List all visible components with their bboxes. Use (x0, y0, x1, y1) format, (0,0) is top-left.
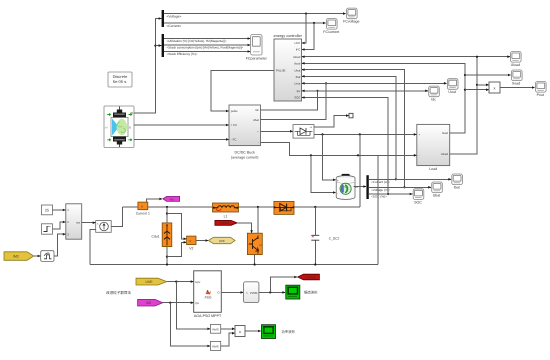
wire: buck + to diode subsystem (261, 130, 293, 132)
scope SOC (413, 189, 424, 200)
svg-text:-: - (258, 141, 259, 145)
wire: battery Voltage signal to Ubat scope (369, 186, 431, 188)
svg-text:Current 1: Current 1 (136, 211, 150, 215)
svg-text:Uload: Uload (293, 55, 301, 59)
svg-text:改进粒子群算法: 改进粒子群算法 (106, 290, 132, 295)
svg-text:5e-05 s.: 5e-05 s. (113, 79, 127, 84)
wire: Ipv line to scope Idc (302, 90, 428, 92)
svg-text:m: m (131, 111, 134, 115)
svg-text:H: H (106, 126, 108, 129)
wire: UFC input from FCvoltage line (305, 13, 307, 15)
wire: IGBT emitter to bottom bus (254, 255, 256, 265)
bus selector 2 (stack parameters) (162, 34, 164, 57)
svg-text:FCvoltage: FCvoltage (343, 20, 359, 24)
inductor L1 (213, 203, 239, 218)
main boost bus wire (122, 206, 359, 208)
svg-text:>: > (246, 291, 248, 295)
bottom return bus wire (90, 264, 378, 266)
from tag UVE (to MPPT) (136, 278, 167, 285)
svg-text:V2: V2 (189, 247, 193, 251)
svg-text:Uload: Uload (511, 63, 520, 67)
svg-text:<SOC (%)>: <SOC (%)> (371, 195, 387, 199)
svg-text:Idc: Idc (255, 108, 259, 112)
wire: Uout line to scope Uout (302, 82, 447, 84)
current measurement block Current 1 (136, 202, 150, 215)
svg-text:x: x (239, 329, 241, 334)
wire: IVE to PSO Ipv (163, 302, 194, 304)
svg-text:UFC: UFC (295, 41, 301, 45)
wire: constant to PV subsystem in1 (53, 209, 66, 211)
bus selector 1 (Voltage / Current) (162, 10, 164, 27)
wire: UVE to PSO Upv (167, 281, 194, 283)
svg-text:x: x (494, 85, 496, 90)
wire: PWM output to scope (259, 291, 285, 293)
svg-text:Load: Load (429, 167, 437, 171)
scope FCparameter (246, 35, 268, 61)
junction: C_DC2 tap on main bus (314, 206, 316, 208)
wire: PULSE output to buck pulse input (211, 70, 274, 111)
svg-text:Iload: Iload (294, 61, 301, 65)
junction: V2 - tap (166, 256, 168, 258)
AGA-PSO MPPT block (194, 271, 222, 318)
svg-text:Ubat: Ubat (294, 69, 300, 73)
wire: V2 + input (167, 214, 186, 239)
wire: Voltage signal to FCvoltage (164, 13, 346, 15)
svg-text:<Stack Efficiency (%)>: <Stack Efficiency (%)> (167, 52, 198, 56)
wire: product to Pout scope (500, 87, 535, 89)
wire: bottom bus riser to DC bus- (377, 155, 379, 264)
wire: current source output up to main bus (111, 207, 122, 227)
RMS block 2 (210, 341, 220, 350)
svg-text:Ipv: Ipv (195, 301, 199, 305)
svg-text:RMS: RMS (212, 345, 218, 349)
wire: Iload branch to product (464, 89, 466, 91)
scope Pout (536, 82, 547, 93)
diode D1 on main bus (274, 201, 295, 214)
svg-text:FCparameter: FCparameter (246, 57, 268, 61)
capacitor C_DC2 (311, 207, 339, 265)
svg-text:PWM2: PWM2 (220, 221, 229, 225)
wire: repeating block to PV subsystem in3 (54, 234, 65, 256)
wire: UVE branch down to RMS (176, 282, 210, 329)
svg-text:Ipv: Ipv (297, 89, 301, 93)
wire: IVE branch down to RMS1 (170, 303, 210, 346)
svg-text:<Stack consumption (lpm) [Air(: <Stack consumption (lpm) [Air(Yellow), F… (167, 46, 244, 50)
wire: V2 - input (167, 242, 186, 256)
svg-text:(average current): (average current) (231, 156, 259, 160)
wire: Stack consumption signal (164, 44, 250, 46)
svg-text:Iload: Iload (442, 131, 449, 135)
svg-text:Upv: Upv (195, 280, 201, 284)
svg-text:Uout: Uout (448, 90, 456, 94)
product block (PV power) (235, 326, 245, 337)
svg-text:O: O (129, 126, 131, 129)
wire: step to PV subsystem in2 (53, 222, 66, 229)
wire: Ibat line controller to riser (302, 76, 396, 179)
wire: fuel cell - to buck (134, 138, 229, 140)
repeating sequence block (41, 251, 54, 262)
junction: battery + drop (321, 133, 323, 135)
svg-text:- FC: - FC (231, 138, 237, 142)
scope Ibat (452, 174, 463, 185)
svg-text:<Voltage>: <Voltage> (167, 15, 182, 19)
PWM generator block (244, 282, 259, 303)
wire: from tag to repeating block (34, 255, 41, 257)
terminator block (349, 113, 353, 117)
wire: current source negative down to bottom bus (90, 229, 96, 264)
junction: Cdu1 tap on main bus (166, 206, 168, 208)
wire: RMS1 to product (221, 328, 235, 330)
wire: Iload branch to scope (464, 74, 466, 76)
svg-text:Iload: Iload (512, 82, 520, 86)
junction: battery - drop (310, 154, 312, 156)
wire: product to green display (245, 330, 261, 332)
IGBT Q1 (247, 233, 262, 254)
wire: IGBT collector to main bus (257, 206, 259, 208)
goto tag IVE (PV current) (163, 196, 180, 201)
wire: Uload branch to product (476, 84, 478, 86)
bus selector 3 (battery measurements) (366, 175, 368, 199)
svg-text:25: 25 (45, 209, 49, 213)
svg-text:<Current>: <Current> (167, 24, 182, 28)
svg-text:Uload: Uload (441, 152, 449, 156)
svg-text:IVE: IVE (170, 197, 175, 201)
svg-text:AGA-PSO MPPT: AGA-PSO MPPT (194, 314, 222, 318)
svg-text:+ FC: + FC (231, 123, 237, 127)
svg-text:<Voltage (V)>: <Voltage (V)> (371, 188, 390, 192)
svg-text:Ibat: Ibat (296, 75, 301, 79)
RMS block 1 (210, 325, 220, 334)
wire: Current signal to FCcurrent (164, 22, 326, 24)
wire: SOC line controller to riser (302, 98, 388, 195)
DC/DC Buck block U_buck (229, 105, 261, 160)
wire: V2 output to goto UVE (196, 240, 208, 242)
goto tag PWM2 (298, 274, 320, 280)
svg-text:-: - (419, 154, 420, 158)
svg-text:PSO: PSO (205, 296, 212, 300)
svg-text:V: V (189, 239, 191, 243)
wire: Uload riser from load (450, 57, 477, 154)
scope Ubat (432, 182, 443, 193)
energy controller block (274, 34, 303, 101)
junction: bottom bus riser on DC bus- (357, 154, 359, 156)
battery block (336, 174, 358, 199)
green scope (PV power waveform) (262, 325, 276, 339)
wire: battery + drop (323, 134, 336, 179)
svg-text:功率波形: 功率波形 (281, 330, 295, 334)
wire: fuel cell + to buck (134, 124, 229, 126)
wire: Stack efficiency signal (164, 51, 250, 53)
wire: PSO output to PWM generator (221, 291, 243, 293)
wire: boost output riser (359, 134, 361, 207)
wire: DC bus- from buck - to Load - (261, 142, 417, 155)
wire: battery m to bus selector (354, 186, 367, 188)
wire: buck Idc output up to Ipv line (261, 91, 318, 110)
from tag IM2 (irradiance) (4, 252, 34, 260)
wire: PWM branch to goto PWM2 (270, 277, 297, 292)
fuel cell stack block (104, 106, 134, 148)
svg-text:Ubat: Ubat (433, 194, 441, 198)
svg-text:+: + (337, 178, 339, 182)
goto tag UVE (PV voltage) (209, 237, 236, 243)
svg-text:Pout: Pout (537, 93, 544, 97)
svg-text:SOC: SOC (414, 200, 422, 204)
green scope (PWM waveform) (286, 285, 300, 299)
diode subsystem after buck (293, 125, 314, 139)
Load block (417, 124, 450, 171)
wire: Current 1 m output to goto IVE (147, 199, 163, 202)
svg-text:+: + (419, 133, 421, 137)
svg-text:IFC: IFC (296, 48, 301, 52)
svg-text:<Current (A)>: <Current (A)> (371, 180, 390, 184)
svg-text:IVE: IVE (146, 301, 152, 305)
wire: fuel cell m output up to bus selectors (134, 19, 161, 114)
wire: PWM2 from tag to IGBT gate (237, 223, 252, 233)
svg-text:SOC: SOC (294, 96, 300, 100)
svg-text:Ibat: Ibat (454, 186, 460, 190)
constant block 25 (42, 205, 53, 215)
product block (Pout multiply) (489, 82, 500, 93)
wire: battery Current signal to Ibat scope (369, 178, 451, 180)
wire: Iload line from load to controller and scope (302, 63, 465, 133)
scope FCcurrent (327, 19, 338, 30)
svg-text:Ipv: Ipv (76, 221, 80, 225)
svg-text:锯齿波形: 锯齿波形 (304, 290, 318, 294)
wire: Uload line from load to controller and scope (302, 56, 510, 58)
scope FCvoltage (347, 8, 358, 19)
PV model subsystem (66, 204, 82, 239)
svg-text:<Utilization (%) [O2(Yellow),: <Utilization (%) [O2(Yellow), H2(Magenta… (167, 39, 227, 43)
voltage measurement block V2 (187, 236, 196, 251)
wire: IFC input from FCcurrent line (313, 22, 315, 24)
svg-text:pulse: pulse (231, 109, 238, 113)
svg-text:IM2: IM2 (13, 255, 19, 259)
junction: m line to bus selector 2 (154, 45, 156, 47)
scope Uload (511, 52, 522, 63)
svg-text:Cdu1: Cdu1 (151, 235, 159, 239)
svg-text:Uout: Uout (294, 81, 300, 85)
wire: Ubat line controller to riser (302, 70, 404, 188)
wire: buck Ubat output up to Uout line (261, 83, 327, 119)
svg-text:DC/DC Buck: DC/DC Buck (235, 151, 256, 155)
from tag PWM2 (gate signal) (215, 220, 237, 225)
powergui block (Discrete 5e-05 s) (108, 72, 132, 87)
svg-text:PULSE: PULSE (276, 69, 286, 73)
scope Idc (429, 86, 440, 97)
svg-text:L1: L1 (224, 214, 228, 218)
svg-text:PWM: PWM (250, 291, 258, 295)
wire: battery SOC signal to SOC scope (369, 193, 413, 195)
from tag IVE (to MPPT) (138, 299, 163, 306)
wire: RMS2 to product (221, 333, 235, 346)
scope Uout (447, 79, 458, 90)
svg-text:energy controller: energy controller (274, 34, 303, 38)
wire: Utilization signal (164, 38, 250, 40)
wire: Cdu1 branch down to bottom bus (166, 207, 168, 265)
svg-text:UVE: UVE (146, 280, 154, 284)
svg-text:-: - (337, 191, 338, 195)
controlled current source (96, 221, 112, 233)
svg-text:RMS: RMS (212, 328, 218, 332)
wire: diode measurement to terminator (314, 116, 349, 127)
svg-text:C_DC2: C_DC2 (329, 236, 340, 240)
svg-text:Ubat: Ubat (253, 118, 259, 122)
capacitor Cdu1 (151, 223, 171, 247)
svg-text:FCcurrent: FCcurrent (323, 30, 339, 34)
svg-text:A: A (141, 204, 143, 208)
svg-text:UVE: UVE (219, 239, 225, 243)
svg-text:Idc: Idc (431, 98, 436, 102)
junction: boost riser on DC bus+ (359, 133, 361, 135)
wire: DC bus+ from diode to Load + (314, 133, 416, 135)
svg-text:PWM2: PWM2 (307, 276, 316, 280)
wire: PV subsystem to controlled current source (82, 222, 96, 224)
step block (42, 224, 53, 234)
junction: V2 + tap (166, 212, 168, 214)
scope Iload (512, 70, 523, 81)
wire: battery - drop (311, 155, 336, 192)
